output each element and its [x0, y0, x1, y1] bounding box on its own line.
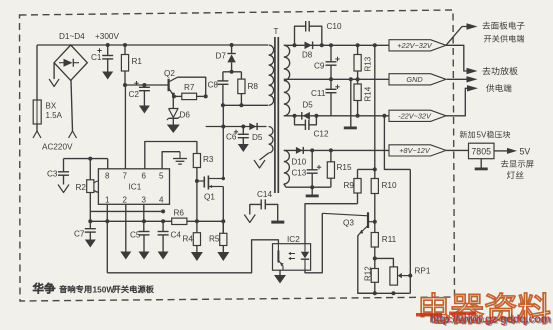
- svg-text:7805: 7805: [471, 146, 491, 156]
- diode D10: [296, 147, 303, 154]
- wire pin2 to ground: [125, 204, 127, 251]
- svg-text:R5: R5: [209, 235, 220, 244]
- transformer secondary main winding: [284, 45, 290, 116]
- resistor R2: [89, 159, 91, 180]
- svg-text:R12: R12: [364, 266, 373, 281]
- svg-text:C2: C2: [129, 90, 140, 99]
- svg-text:R15: R15: [337, 163, 352, 172]
- net -22V output flag: [389, 110, 446, 121]
- svg-text:7: 7: [123, 172, 128, 181]
- diode D5 secondary: [303, 112, 310, 120]
- svg-text:C11: C11: [311, 89, 326, 98]
- capacitor C5: [143, 204, 145, 231]
- svg-text:6: 6: [142, 172, 147, 181]
- transformer core: [274, 37, 276, 193]
- svg-text:D5: D5: [303, 101, 314, 110]
- resistor R9: [357, 169, 359, 178]
- net GND output flag: [389, 74, 446, 85]
- wire Q3 emitter down: [358, 234, 375, 293]
- capacitor C6: [241, 125, 245, 129]
- svg-text:R3: R3: [203, 155, 214, 164]
- svg-text:C9: C9: [314, 62, 325, 71]
- capacitor C2: [142, 83, 146, 87]
- label to amplifier: [482, 67, 517, 75]
- svg-text:R7: R7: [184, 83, 195, 92]
- svg-text:1: 1: [105, 195, 110, 204]
- IC2 LED: [304, 244, 306, 252]
- net +22V output flag: [389, 40, 446, 51]
- svg-text:C8: C8: [208, 81, 219, 90]
- svg-text:Q3: Q3: [343, 219, 354, 228]
- wire to panel supply: [446, 27, 467, 46]
- wire L2: [90, 220, 223, 222]
- MOSFET Q1: [197, 180, 204, 182]
- resistor R4: [196, 221, 198, 232]
- resistor R11: [374, 222, 376, 233]
- svg-text:D7: D7: [216, 52, 227, 61]
- fuse BX 1.5A: [33, 100, 41, 124]
- capacitor C13: [310, 148, 314, 152]
- svg-text:8: 8: [105, 172, 110, 181]
- title board name: [59, 285, 91, 293]
- potentiometer RP1: [375, 258, 394, 267]
- svg-text:D10: D10: [292, 158, 307, 167]
- svg-text:D6: D6: [180, 111, 191, 120]
- capacitor C4: [162, 221, 164, 231]
- wire -22V to wiper column: [382, 114, 386, 118]
- +300V rail: [37, 44, 268, 46]
- wire aux feed: [206, 126, 267, 128]
- transformer secondary 8V winding: [284, 150, 290, 184]
- wire feedback route to IC2: [107, 240, 278, 273]
- ground 3-bar pin5: [179, 152, 181, 159]
- wire LED cathode to Q3 base: [305, 213, 322, 272]
- svg-text:D8: D8: [302, 51, 313, 60]
- resistor R15: [329, 148, 333, 152]
- svg-text:C7: C7: [74, 230, 85, 239]
- wire pin8 top: [107, 159, 109, 169]
- svg-text:D1~D4: D1~D4: [59, 32, 85, 41]
- capacitor C3: [63, 159, 65, 172]
- resistor R8: [240, 72, 242, 79]
- -22V rail: [284, 115, 389, 117]
- svg-text:3: 3: [142, 195, 147, 204]
- wire pin6 to R3: [145, 142, 197, 169]
- diode D7: [230, 43, 234, 47]
- resistor R13: [356, 43, 360, 47]
- wire -22V to amp: [446, 88, 467, 116]
- svg-text:AC220V: AC220V: [42, 143, 73, 152]
- transistor Q3: [367, 212, 369, 228]
- resistor R10: [371, 179, 378, 194]
- AC220V terminal arrows: [33, 131, 41, 138]
- wire drain column: [222, 105, 224, 178]
- wire clamp top row: [223, 71, 242, 73]
- capacitor C12: [293, 114, 297, 118]
- wire Q2 base rail: [123, 83, 127, 87]
- zener D6: [172, 96, 174, 108]
- wire wiper column: [409, 169, 411, 293]
- svg-text:C6: C6: [226, 133, 237, 142]
- ground below bridge: [53, 63, 55, 79]
- capacitor C10: [293, 43, 297, 47]
- svg-text:C3: C3: [47, 170, 58, 179]
- wire Q1 source column: [222, 187, 224, 234]
- resistor R12: [374, 258, 376, 268]
- transformer T primary winding: [269, 45, 274, 105]
- transistor Q2: [168, 79, 170, 91]
- svg-text:+8V~12V: +8V~12V: [399, 146, 431, 155]
- svg-text:BX: BX: [46, 102, 57, 111]
- wire L1: [90, 210, 163, 212]
- bridge rectifier D1~D4: [54, 45, 87, 80]
- svg-text:C5: C5: [130, 231, 141, 240]
- IC2 phototransistor: [277, 244, 279, 251]
- svg-text:R6: R6: [174, 209, 185, 218]
- svg-text:5: 5: [159, 172, 164, 181]
- dashed board border: [20, 10, 455, 301]
- wire to opto LED: [305, 204, 358, 244]
- svg-text:R4: R4: [183, 235, 194, 244]
- svg-text:T: T: [274, 27, 279, 36]
- IC IC1: [98, 169, 169, 205]
- svg-text:http://www.gz-gddq.com: http://www.gz-gddq.com: [430, 314, 551, 326]
- wire GND to amp: [447, 78, 467, 80]
- svg-text:R11: R11: [382, 235, 397, 244]
- transformer feedback winding: [269, 127, 273, 154]
- capacitor C11: [329, 77, 333, 81]
- svg-text:R13: R13: [364, 56, 373, 71]
- wire 8V return: [286, 186, 331, 188]
- svg-text:+22V~32V: +22V~32V: [397, 41, 433, 50]
- wire +22V to amp: [446, 45, 467, 71]
- svg-text:R1: R1: [132, 57, 143, 66]
- GND rail: [284, 78, 389, 80]
- wire Q2 collector: [178, 77, 206, 96]
- label new 5V regulator: [460, 131, 475, 138]
- svg-text:C10: C10: [327, 22, 342, 31]
- capacitor C9: [329, 43, 333, 47]
- resistor R1: [123, 43, 127, 47]
- wire pin7 column: [124, 85, 126, 169]
- ground stub secondary: [349, 77, 353, 81]
- svg-text:C1: C1: [91, 53, 102, 62]
- +22V rail: [284, 44, 389, 46]
- ground 7805: [480, 159, 482, 168]
- watermark dianqiziliao: [421, 293, 550, 324]
- optocoupler IC2: [273, 244, 311, 271]
- ground bar 8V: [311, 187, 313, 194]
- resistor R14: [357, 79, 359, 84]
- svg-text:GND: GND: [406, 75, 423, 84]
- regulator 7805: [446, 149, 469, 151]
- svg-text:C4: C4: [171, 231, 182, 240]
- wire clamp bottom row to primary: [223, 104, 268, 106]
- svg-text:R10: R10: [382, 181, 397, 190]
- svg-text:R2: R2: [76, 183, 87, 192]
- wire divider bottom: [358, 292, 411, 294]
- wire pin5 to ground: [162, 152, 180, 169]
- ground IC2: [279, 270, 281, 275]
- svg-text:2: 2: [123, 195, 128, 204]
- svg-text:IC1: IC1: [129, 183, 142, 192]
- +8V rail: [284, 149, 389, 151]
- svg-text:D5: D5: [252, 133, 263, 142]
- svg-text:R14: R14: [364, 86, 373, 101]
- svg-text:IC2: IC2: [287, 235, 300, 244]
- svg-text:RP1: RP1: [415, 267, 431, 276]
- svg-text:C14: C14: [257, 190, 272, 199]
- capacitor C7: [89, 221, 91, 228]
- svg-text:-22V~32V: -22V~32V: [398, 111, 432, 120]
- svg-text:Q2: Q2: [164, 69, 175, 78]
- wire sampling column from +22V: [373, 43, 377, 47]
- net +8V output flag: [389, 145, 446, 156]
- IC2 light arrows: [289, 253, 295, 255]
- svg-text:C12: C12: [314, 130, 329, 139]
- wire pin1/feedback column: [106, 204, 108, 272]
- svg-text:R8: R8: [248, 82, 259, 91]
- svg-text:+300V: +300V: [95, 32, 119, 41]
- wire AC input left: [36, 45, 38, 100]
- svg-text:4: 4: [159, 195, 164, 204]
- svg-text:1.5A: 1.5A: [46, 111, 63, 120]
- resistor R5: [222, 221, 224, 233]
- diode D5 primary: [249, 123, 256, 130]
- wire sampling junction row: [358, 168, 375, 170]
- capacitor C8: [222, 72, 224, 81]
- svg-text:5V: 5V: [520, 146, 531, 156]
- svg-text:R9: R9: [344, 181, 355, 190]
- svg-text:5V: 5V: [477, 130, 487, 139]
- svg-text:Q1: Q1: [204, 193, 215, 202]
- capacitor C1: [106, 43, 110, 47]
- title Huazheng: [33, 283, 55, 294]
- resistor R3: [193, 154, 200, 168]
- diode D8: [305, 42, 312, 50]
- ground feedback winding: [254, 160, 265, 168]
- label to display filament: [501, 160, 534, 168]
- label to panel: [482, 22, 524, 30]
- svg-text:150W: 150W: [93, 284, 115, 294]
- resistor R6: [172, 218, 187, 224]
- svg-text:C13: C13: [292, 169, 307, 178]
- resistor R7: [172, 94, 176, 98]
